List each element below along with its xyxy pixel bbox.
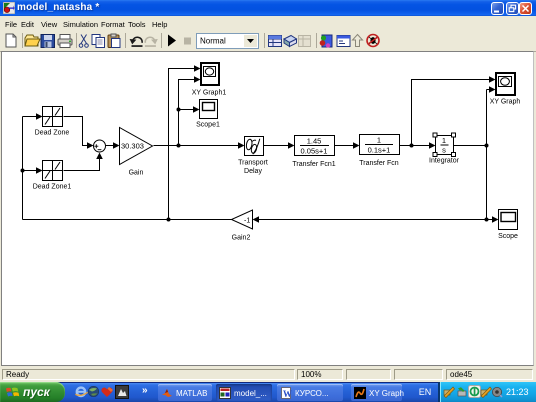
tray icon 3 — [468, 385, 481, 398]
wire Gain2 out — [23, 219, 232, 221]
stop icon (disabled) — [184, 38, 191, 45]
arrowhead into Dead Zone — [36, 113, 43, 120]
wire branch to XY Graph port1 — [412, 80, 491, 146]
redo icon (disabled) — [145, 37, 158, 47]
arrowhead into Scope1 — [193, 106, 200, 113]
clock — [506, 387, 529, 397]
arrowhead into sum bottom — [96, 153, 103, 160]
wire Integrator out — [454, 145, 487, 147]
separator — [316, 33, 317, 48]
undo icon — [130, 37, 143, 47]
cut icon — [79, 35, 88, 48]
open icon — [25, 35, 40, 46]
XY Graph task button — [351, 384, 402, 401]
EN language indicator — [415, 384, 435, 400]
close button — [519, 2, 532, 15]
arrowhead into XY Graph port2 — [489, 86, 496, 93]
wire feedback left vertical — [22, 117, 24, 220]
tray icon 4 — [480, 386, 492, 398]
svg-text:W: W — [283, 389, 292, 399]
wire right vertical — [486, 90, 488, 220]
arrowhead into Gain2 — [253, 216, 260, 223]
junction at Dead Zone1 branch — [21, 169, 25, 173]
junction at feedback XY Graph1 branch — [167, 218, 171, 222]
window title — [17, 2, 99, 13]
separator — [125, 33, 126, 48]
junction at Scope1 branch — [177, 108, 181, 112]
new file icon — [6, 34, 16, 47]
arrowhead into Integrator — [429, 142, 436, 149]
toolbar — [0, 30, 536, 52]
wire branch to XY Graph1 port2 — [179, 80, 196, 146]
block Dead Zone1 — [43, 161, 63, 181]
Normal dropdown — [197, 34, 259, 49]
separator — [264, 33, 265, 48]
restore button — [506, 2, 519, 15]
MATLAB task button — [158, 384, 212, 401]
wire Transport Delay to Transfer Fcn1 — [264, 145, 290, 147]
junction at Transfer Fcn out branch — [410, 144, 414, 148]
copy icon — [92, 35, 105, 48]
KURSO task button — [277, 384, 343, 401]
arrowhead into XY Graph1 port1 — [194, 65, 201, 72]
up arrow icon — [353, 35, 363, 47]
print icon — [58, 35, 72, 48]
block XY Graph — [496, 73, 515, 95]
model canvas — [1, 51, 534, 366]
junction at Gain output branch — [177, 144, 181, 148]
arrowhead into Transfer Fcn — [353, 142, 360, 149]
wire Dead Zone out to sum — [64, 117, 90, 146]
start text — [23, 385, 50, 399]
title bar app icon — [3, 2, 15, 14]
wire sum to Gain — [106, 145, 115, 147]
windows flag logo — [5, 385, 20, 399]
quick launch globe icon — [87, 385, 100, 398]
block Scope1 — [200, 100, 218, 119]
arrowhead into Dead Zone1 — [36, 167, 43, 174]
block Gain — [120, 128, 153, 165]
arrowhead into Transfer Fcn1 — [288, 142, 295, 149]
junction at Scope branch — [485, 218, 489, 222]
arrowhead into XY Graph port1 — [489, 76, 496, 83]
taskbar — [0, 382, 536, 402]
sum block — [94, 140, 106, 152]
minimize button — [491, 2, 504, 15]
wire feedback to Gain2 — [258, 219, 487, 221]
quick launch heart icon — [100, 385, 114, 399]
wire into XY Graph port2 — [487, 89, 491, 91]
arrowhead into XY Graph1 port2 — [194, 76, 201, 83]
status bar — [0, 367, 536, 382]
library icon 2 — [284, 36, 297, 47]
paste icon — [108, 34, 120, 48]
block Transfer Fcn1 — [295, 136, 335, 156]
block Integrator (selected) — [433, 133, 456, 157]
tray icon 1 — [443, 386, 455, 398]
wire Gain to Transport Delay — [154, 145, 240, 147]
wire branch to Scope1 — [179, 109, 195, 111]
separator — [161, 33, 162, 48]
save icon — [41, 35, 55, 48]
library browser icon — [320, 35, 332, 48]
wire into Dead Zone — [23, 116, 38, 118]
block XY Graph1 — [201, 63, 219, 85]
wire branch to XY Graph1 port1 — [169, 69, 196, 220]
quick launch chevron — [142, 385, 148, 396]
play icon — [168, 35, 176, 47]
arrowhead into Transport Delay — [238, 142, 245, 149]
arrowhead into sum left — [87, 142, 94, 149]
tray icon 5 — [491, 386, 503, 398]
menu bar — [0, 16, 536, 30]
system tray — [438, 382, 536, 402]
arrowhead into Scope — [492, 216, 499, 223]
wire Dead Zone1 out to sum bottom — [64, 158, 100, 171]
block Gain2 — [232, 210, 253, 229]
wire Transfer Fcn to Integrator — [400, 145, 431, 147]
block Scope — [499, 210, 518, 230]
separator — [76, 33, 77, 48]
quick launch IE icon — [74, 385, 88, 399]
block Transport Delay — [245, 137, 264, 156]
arrowhead into Gain — [113, 142, 120, 149]
debug icon — [367, 35, 379, 47]
model_ task button (pressed) — [216, 384, 272, 401]
block Transfer Fcn — [360, 135, 400, 155]
model browser icon — [337, 36, 350, 47]
title bar — [0, 0, 536, 16]
block Dead Zone — [43, 107, 63, 127]
wire Transfer Fcn1 to Transfer Fcn — [335, 145, 355, 147]
start button — [0, 382, 65, 402]
tray icon 2 — [456, 386, 468, 398]
svg-text:Normal: Normal — [200, 37, 226, 46]
wire into Scope — [487, 219, 494, 221]
separator — [22, 33, 23, 48]
wire into Dead Zone1 — [23, 170, 38, 172]
quick launch photo icon — [115, 385, 129, 399]
library icon 1 — [269, 36, 282, 47]
junction at Integrator out branch — [485, 144, 489, 148]
library icon 3 (disabled) — [299, 36, 311, 47]
